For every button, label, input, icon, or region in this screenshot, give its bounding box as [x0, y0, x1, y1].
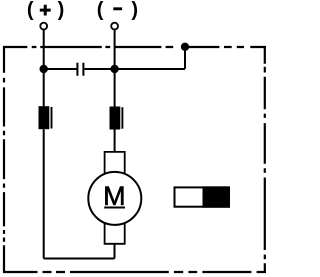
terminal (-) open circle [111, 23, 118, 30]
wire: up to motor bottom brush [114, 244, 116, 259]
wire: (+) terminal down to node A [43, 29, 45, 106]
svg-text:): ) [58, 0, 65, 21]
motor M1 housing circle [88, 172, 141, 225]
permanent magnet black pole [203, 186, 231, 207]
wire: choke L1 down the left side [43, 129, 45, 258]
choke L1 body [39, 106, 50, 129]
node B junction dot [110, 65, 118, 73]
enclosure border left (dash-dot chassis line) [3, 46, 5, 273]
label (+) terminal text: plus sign [40, 5, 51, 16]
label (-) terminal text: minus sign [113, 7, 122, 10]
enclosure border right (dash-dot chassis line) [264, 46, 266, 273]
choke L2 body [110, 107, 121, 130]
wire: chassis drop up to border junction [184, 47, 186, 70]
motor M1 bottom brush [105, 223, 125, 244]
wire: choke L2 down to motor top brush [114, 130, 116, 153]
svg-text:): ) [131, 0, 138, 21]
wire: node B to chassis drop [115, 68, 185, 70]
chassis junction dot on border [181, 43, 189, 51]
enclosure border top (dash-dot chassis line) [3, 46, 266, 48]
choke L1 core line [51, 107, 53, 129]
permanent magnet outline (white pole) [175, 187, 230, 206]
wire: (-) terminal down to node B [114, 29, 116, 107]
node A junction dot [40, 65, 48, 73]
motor M1 top brush [105, 152, 125, 174]
wire: node A to capacitor left plate [44, 68, 77, 70]
choke L2 core line [121, 107, 123, 129]
motor M1 letter underline [104, 207, 125, 209]
capacitor C1 plates [77, 63, 83, 76]
terminal (+) open circle [40, 23, 47, 30]
svg-text:(: ( [27, 0, 34, 21]
enclosure border bottom (dash-dot chassis line) [3, 271, 266, 273]
wire: capacitor right plate to node B [84, 68, 114, 70]
svg-text:(: ( [97, 0, 104, 21]
wire: bottom run to motor [44, 258, 115, 260]
